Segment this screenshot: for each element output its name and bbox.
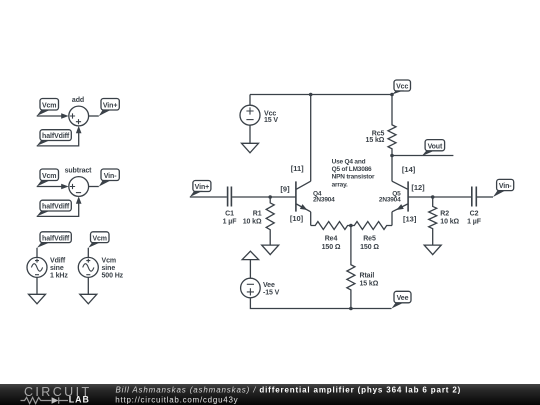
node junction C1/R1 (268, 195, 272, 199)
wire Vcm to adder (37, 115, 62, 117)
wire halfVdiff to adder bottom (37, 133, 79, 146)
svg-text:15 kΩ: 15 kΩ (360, 281, 379, 288)
svg-text:Re5: Re5 (363, 236, 376, 243)
node flag Vin- (subtract output) (99, 169, 120, 187)
svg-text:Vee: Vee (397, 295, 409, 302)
svg-text:Vee: Vee (263, 282, 275, 289)
wire Q4 emitter down (310, 212, 312, 226)
wire Rc5 to Q5 collector (391, 156, 393, 182)
svg-text:halfVdiff: halfVdiff (42, 204, 70, 211)
svg-text:10 kΩ: 10 kΩ (243, 219, 262, 226)
annotation note (332, 158, 375, 188)
svg-text:150 Ω: 150 Ω (322, 244, 341, 251)
svg-text:10 kΩ: 10 kΩ (440, 219, 459, 226)
pin label [12] (411, 183, 425, 192)
svg-text:[11]: [11] (291, 164, 304, 173)
resistor R1 (243, 197, 274, 245)
svg-text:C2: C2 (470, 210, 479, 217)
ground (under R1) (262, 245, 279, 255)
svg-text:[9]: [9] (280, 184, 290, 193)
svg-text:[14]: [14] (402, 165, 416, 174)
svg-text:NPN transistor: NPN transistor (332, 174, 375, 181)
resistor Re5 (351, 222, 392, 252)
svg-text:Vdiff: Vdiff (50, 257, 66, 264)
capacitor C1 (223, 187, 238, 226)
svg-text:Vout: Vout (428, 143, 443, 150)
arrowhead into subtractor (61, 184, 68, 190)
svg-text:array.: array. (332, 181, 348, 188)
node flag Vin- (right) (493, 179, 514, 197)
node junction Re4/Re5/Rtail (349, 224, 353, 228)
node flag Vcm (subtract input) (37, 169, 59, 187)
wire Vee source to bottom rail (250, 298, 391, 309)
node flag halfVdiff (on V1) (37, 232, 71, 248)
node flag Vee (392, 291, 412, 308)
wire Vout (392, 155, 453, 157)
resistor Rtail (347, 226, 379, 309)
pin label [11] (291, 164, 304, 173)
svg-text:Q5 of LM3086: Q5 of LM3086 (332, 166, 372, 173)
arrowhead into adder (61, 113, 68, 119)
svg-text:C1: C1 (225, 210, 234, 217)
node flag Vin+ (main input) (190, 181, 211, 198)
voltage source Vee -15V (241, 278, 280, 298)
wire rail to Q4 collector (310, 95, 312, 182)
pin label [9] (280, 184, 290, 193)
svg-text:15 V: 15 V (264, 117, 278, 124)
svg-text:1 kHz: 1 kHz (50, 273, 68, 280)
voltage source Vdiff (sine 1 kHz) (27, 257, 68, 279)
wire V2 to ground (87, 277, 89, 294)
svg-text:Rtail: Rtail (360, 273, 375, 280)
svg-text:Vin-: Vin- (104, 173, 117, 180)
svg-text:halfVdiff: halfVdiff (42, 235, 70, 242)
pin label [13] (403, 214, 417, 223)
svg-text:-15 V: -15 V (263, 289, 280, 296)
svg-text:15 kΩ: 15 kΩ (366, 137, 385, 144)
svg-text:Vin+: Vin+ (103, 102, 117, 109)
node flag Vout (422, 140, 445, 157)
wire adder output (89, 115, 99, 117)
wire Q5 emitter down (391, 212, 393, 226)
transistor Q4 2N3904 (296, 181, 335, 212)
svg-text:[10]: [10] (290, 214, 304, 223)
node junction Rtail/bottom rail (349, 307, 353, 311)
wire subtractor output (89, 186, 99, 188)
wire V1 to ground (36, 277, 38, 294)
svg-text:http://circuitlab.com/cdgu43y: http://circuitlab.com/cdgu43y (115, 395, 238, 404)
svg-text:2N3904: 2N3904 (379, 197, 401, 204)
node flag Vcc (392, 80, 411, 95)
voltage source Vcc 15V (240, 95, 278, 126)
svg-text:halfVdiff: halfVdiff (42, 133, 70, 140)
svg-text:subtract: subtract (65, 168, 93, 175)
arrowhead up into subtractor (76, 196, 82, 203)
node junction rail/Q4 collector (309, 93, 313, 97)
wire Q4 base (295, 196, 297, 198)
ground (under Vcc source) (242, 143, 259, 153)
node flag Vin+ (add output) (99, 99, 120, 117)
op-amp summer U_add (69, 106, 89, 126)
node flag Vcm (add input) (37, 99, 59, 117)
wire Q5 base (408, 196, 471, 198)
arrowhead up into adder (76, 126, 82, 133)
resistor Re4 (311, 222, 351, 252)
pin label [14] (402, 165, 416, 174)
logo resistor-diode glyph (21, 397, 69, 404)
svg-text:Vcc: Vcc (396, 84, 408, 91)
wire C2 to Vin- (477, 196, 493, 198)
svg-text:500 Hz: 500 Hz (102, 273, 124, 280)
summer "add" label (72, 97, 84, 104)
resistor Rc5 (366, 95, 396, 156)
svg-text:Re4: Re4 (325, 236, 338, 243)
ground (under Vcm) (80, 294, 97, 304)
capacitor C2 (467, 187, 482, 226)
node junction Rc5/Vout/Q5 collector (390, 154, 394, 158)
supply arrow above Vee (242, 251, 258, 259)
wire flag to V1 (36, 248, 38, 258)
ground (under R2) (424, 245, 441, 255)
summer "subtract" label (65, 168, 93, 175)
footer title line (116, 385, 462, 394)
op-amp summer U_subtract (69, 177, 89, 197)
logo CIRCUIT (24, 385, 92, 399)
footer background (0, 384, 540, 405)
svg-text:Vcm: Vcm (92, 235, 107, 242)
ground (under Vdiff) (29, 294, 46, 304)
resistor R2 (429, 197, 460, 245)
svg-text:150 Ω: 150 Ω (360, 244, 379, 251)
wire flag to V2 (87, 248, 89, 258)
svg-text:Vcm: Vcm (102, 257, 117, 264)
logo LAB (69, 395, 90, 405)
svg-text:sine: sine (50, 265, 64, 272)
svg-text:[13]: [13] (403, 214, 417, 223)
svg-text:[12]: [12] (411, 183, 425, 192)
node junction base/R2/C2 (431, 195, 435, 199)
wire Vin+ to C1 (190, 196, 227, 198)
svg-text:Vcm: Vcm (42, 102, 57, 109)
wire C1 to Q4 base (232, 196, 296, 198)
footer url line (115, 395, 238, 404)
svg-text:Vin+: Vin+ (195, 184, 209, 191)
transistor Q5 2N3904 (379, 181, 408, 212)
svg-text:R2: R2 (440, 210, 449, 217)
svg-text:Vin-: Vin- (499, 183, 512, 190)
svg-text:sine: sine (102, 265, 116, 272)
node flag halfVdiff (subtract input) (37, 200, 72, 216)
svg-text:add: add (72, 97, 84, 104)
svg-text:LAB: LAB (69, 395, 90, 405)
pin label [10] (290, 214, 304, 223)
wire arrow to Vee source (249, 260, 251, 279)
svg-text:2N3904: 2N3904 (313, 197, 335, 204)
node junction rail/Rc5 (390, 93, 394, 97)
svg-text:R1: R1 (253, 210, 262, 217)
node flag halfVdiff (add input) (37, 130, 72, 146)
wire Vcc to ground (249, 125, 251, 143)
svg-text:Bill Ashmanskas (ashmanskas) /: Bill Ashmanskas (ashmanskas) / different… (116, 385, 462, 394)
svg-text:Vcm: Vcm (42, 173, 57, 180)
node flag Vcm (on V2) (88, 232, 109, 248)
svg-text:Use Q4 and: Use Q4 and (332, 158, 366, 165)
wire halfVdiff to subtractor bottom (37, 203, 79, 216)
voltage source Vcm (sine 500 Hz) (78, 257, 123, 279)
wire Vcc top rail (250, 94, 392, 96)
wire Vcm to subtractor (37, 186, 62, 188)
svg-text:1 µF: 1 µF (223, 219, 238, 226)
svg-text:1 µF: 1 µF (467, 219, 482, 226)
